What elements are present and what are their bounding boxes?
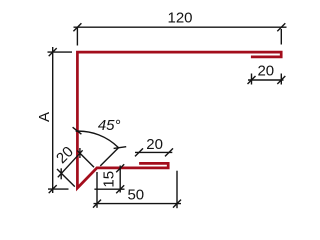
extension line lower bbox=[57, 169, 75, 187]
dimension 50 (bottom) bbox=[93, 171, 181, 209]
tick top bbox=[116, 164, 124, 172]
angle dimension 45 deg bbox=[73, 127, 127, 166]
dimension 20 (top hem, right) bbox=[248, 74, 286, 85]
wire: dim line 15 bbox=[119, 166, 121, 193]
svg-text:20: 20 bbox=[257, 63, 274, 80]
svg-text:120: 120 bbox=[167, 9, 192, 26]
extension stub right bbox=[280, 74, 282, 85]
tick upper bbox=[79, 148, 81, 158]
tick bottom of A bbox=[49, 185, 57, 193]
extension line along fold bbox=[100, 147, 119, 166]
tick right of 120 bbox=[277, 23, 285, 31]
extension line bottom of A bbox=[48, 188, 69, 190]
dimension 20 (bottom hem) bbox=[135, 148, 173, 156]
extension line left of 120 bbox=[76, 27, 78, 45]
tick left bbox=[93, 200, 101, 208]
tick top of A bbox=[49, 48, 57, 56]
tick left of 120 bbox=[73, 23, 81, 31]
svg-text:A: A bbox=[36, 112, 53, 122]
extension line left bbox=[96, 172, 98, 208]
tick at arc end bbox=[114, 147, 127, 149]
svg-text:15: 15 bbox=[100, 171, 117, 188]
wire: dim line A bbox=[52, 47, 54, 193]
extension stub left bbox=[251, 74, 253, 85]
wire: dim line 20 bottom bbox=[135, 151, 172, 153]
tick at arc start bbox=[73, 127, 82, 134]
svg-text:50: 50 bbox=[127, 186, 144, 203]
svg-text:20: 20 bbox=[146, 136, 163, 153]
wire: dim line 50 bbox=[94, 203, 182, 205]
extension line bottom bbox=[94, 188, 124, 190]
wire: dim line rotated 20 bbox=[58, 150, 83, 177]
extension line right of 120 bbox=[280, 29, 282, 45]
extension line upper bbox=[77, 151, 94, 168]
dimension A (left) bbox=[48, 47, 73, 193]
tick left bbox=[248, 76, 256, 84]
profile outline (red sheet-metal flashing) bbox=[77, 52, 281, 188]
tick right bbox=[277, 76, 285, 84]
tick bottom bbox=[116, 185, 124, 193]
svg-text:45°: 45° bbox=[98, 117, 121, 134]
dimension 20 (rotated, on 45-deg fold) bbox=[57, 148, 94, 187]
tick lower bbox=[60, 168, 62, 179]
arc bbox=[76, 131, 119, 147]
tick right bbox=[165, 148, 173, 156]
wire: dim line 120 bbox=[74, 26, 287, 28]
tick right bbox=[173, 200, 181, 208]
wire: dim line 20 right bbox=[248, 79, 284, 81]
dimension 120 (top) bbox=[73, 23, 286, 45]
tick left bbox=[135, 148, 143, 156]
extension line right bbox=[176, 171, 178, 209]
extension line top of A bbox=[48, 51, 73, 53]
dimension 15 (vertical, small) bbox=[94, 164, 124, 193]
